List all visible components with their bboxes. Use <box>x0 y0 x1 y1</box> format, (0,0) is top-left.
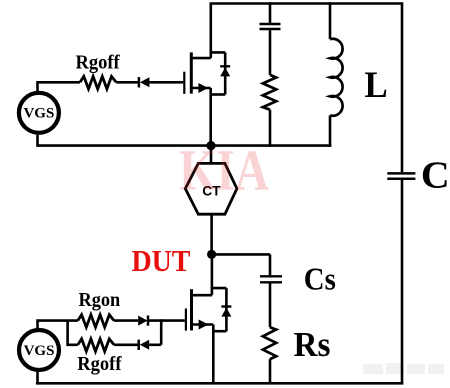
wire Rgoff to diode <box>114 343 138 346</box>
wire diode to Q1 gate <box>149 81 183 84</box>
wire L branch bottom <box>329 115 332 146</box>
transistor Q2 gate bar <box>185 309 187 331</box>
inductor L <box>330 39 343 116</box>
wire VGS bottom return <box>36 371 39 383</box>
svg-text:KIA: KIA <box>179 137 269 203</box>
svg-text:C: C <box>421 154 450 196</box>
wire diode to Q2 gate <box>148 319 184 322</box>
wire Q1 drain stub <box>191 57 211 60</box>
body diode D2 <box>221 307 231 317</box>
body diode D1 <box>220 66 230 76</box>
svg-text:Rs: Rs <box>294 326 331 364</box>
svg-text:Rgoff: Rgoff <box>76 52 121 74</box>
diode (gate off, bottom) <box>139 340 150 350</box>
wire gate fork left <box>68 321 78 345</box>
resistor Rgon <box>78 315 114 328</box>
wire Rgon to diode <box>114 319 138 322</box>
diode (gate on) <box>138 316 148 326</box>
wire Q2 drain stub <box>192 254 212 295</box>
wire snubber bottom <box>269 110 272 147</box>
capacitor Cs <box>260 276 282 282</box>
wire right side lower <box>401 180 404 384</box>
wire Q1 body diode bottom <box>211 93 226 96</box>
capacitor C <box>387 173 415 178</box>
transistor Q1 gate bar <box>183 72 185 94</box>
wire L branch top <box>329 2 332 39</box>
resistor Rs <box>263 327 276 359</box>
wire right side upper <box>401 2 404 172</box>
wire VGS bottom top stub <box>38 321 78 330</box>
resistor Rgoff (top) <box>80 76 116 89</box>
svg-text:Cs: Cs <box>304 261 336 297</box>
wire Q2 source <box>192 323 214 326</box>
wire Q1 body diode top <box>211 52 225 94</box>
resistor Rgoff (bottom) <box>78 339 114 352</box>
arrow Q2 source <box>199 320 209 330</box>
wire Q2 body diode top <box>212 288 227 331</box>
svg-text:L: L <box>365 64 388 105</box>
wire tank bottom rail <box>210 144 331 147</box>
wire Q1 source down <box>209 88 212 146</box>
diode (gate off, top) <box>139 77 150 87</box>
wire junction to CT <box>210 146 213 164</box>
svg-text:Rgon: Rgon <box>79 290 121 312</box>
transistor Q2 channel bar <box>190 289 193 330</box>
resistor (snubber) <box>263 75 276 110</box>
wire snubber branch top <box>269 2 272 23</box>
node junction top <box>206 141 215 150</box>
wire Q2 body diode bottom <box>213 330 226 333</box>
wire gate fork right <box>160 319 163 345</box>
wire Cs to Rs <box>269 283 272 327</box>
svg-text:VGS: VGS <box>23 106 54 122</box>
svg-text:VGS: VGS <box>24 343 55 359</box>
arrow Q1 source <box>198 83 208 93</box>
wire CT to node <box>210 214 213 254</box>
wire snubber mid <box>269 30 272 75</box>
wire diode to join <box>149 343 161 346</box>
wire Q1 source <box>191 87 210 90</box>
wire bottom rail <box>36 382 403 385</box>
current transformer CT hexagon <box>185 163 237 214</box>
watermark gray bottom right <box>363 363 444 374</box>
svg-text:Rgoff: Rgoff <box>77 354 122 376</box>
wire Rs to bottom rail <box>269 359 272 384</box>
node junction DUT drain <box>207 250 216 259</box>
wire VGS top stub <box>38 82 81 91</box>
wire VGS top return <box>38 135 212 146</box>
wire top rail <box>210 2 403 5</box>
voltage source VGS (top) <box>19 93 59 133</box>
transistor Q1 channel bar <box>190 52 193 93</box>
capacitor (snubber) <box>260 24 281 29</box>
voltage source VGS (bottom) <box>19 330 59 370</box>
wire Q2 source down <box>212 325 215 385</box>
wire Q1 drain to rail <box>210 4 213 59</box>
wire Rgoff to diode <box>116 81 138 84</box>
svg-text:DUT: DUT <box>132 245 191 279</box>
wire node to Cs branch <box>212 254 270 275</box>
